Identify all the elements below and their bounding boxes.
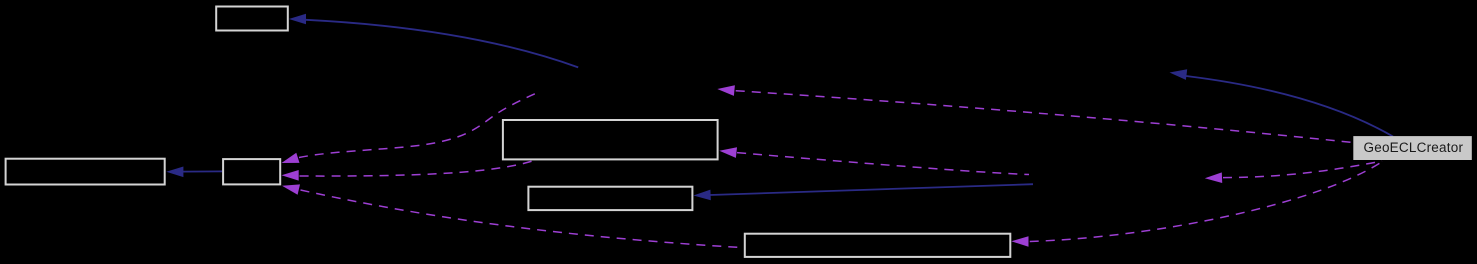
wire: purple dashed edge from hidden node to box C (top arrow): [299, 94, 536, 158]
wire: blue edge from box C to box B: [183, 170, 223, 172]
wire: purple dashed edge from box D to box C (middle arrow): [300, 161, 535, 177]
wire: purple dashed edge from hidden node to box D: [737, 153, 1029, 175]
svg-text:GeoECLCreator: GeoECLCreator: [1364, 140, 1464, 155]
arrowhead into box C middle: [282, 170, 299, 181]
box C (empty node, small): [223, 159, 280, 184]
wire: purple dashed edge from GeoECLCreator to hidden node 1: [736, 91, 1353, 143]
wire: purple dashed edge from GeoECLCreator to box F: [1030, 161, 1383, 242]
box F (empty node, bottom): [745, 234, 1011, 257]
arrowhead into box C bottom: [282, 184, 300, 194]
wire: blue edge from hidden node to box E: [710, 184, 1033, 195]
box B (empty node, far left): [6, 159, 165, 185]
arrowhead hidden node 2: [1205, 172, 1222, 183]
arrowhead into box E: [693, 190, 710, 201]
node GeoECLCreator (highlighted): [1353, 136, 1472, 160]
box A (empty node, top left): [216, 7, 288, 31]
arrowhead top right: [1170, 69, 1188, 80]
wire: purple dashed edge from box F to box C (bottom arrow): [301, 190, 744, 248]
wire: blue inheritance edge from GeoECLCreator to hidden node (top right): [1186, 76, 1393, 137]
arrowhead into box B: [166, 167, 183, 178]
arrowhead into box C top: [282, 153, 300, 163]
box D (empty node, middle tall): [503, 120, 718, 159]
arrowhead hidden node 1: [717, 85, 735, 96]
arrowhead into box D: [719, 147, 737, 158]
wire: purple dashed edge from GeoECLCreator to hidden node 2: [1223, 161, 1382, 178]
arrowhead into box F: [1011, 236, 1028, 247]
box E (empty node, middle): [528, 187, 692, 210]
arrowhead into box A: [289, 14, 306, 25]
wire: blue inheritance edge from hidden node to box A: [306, 20, 578, 68]
